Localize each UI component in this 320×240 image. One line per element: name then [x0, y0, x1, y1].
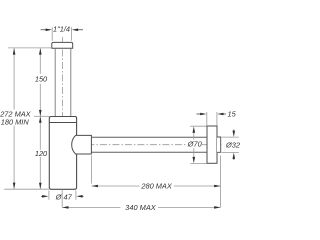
bottom extension line (body base) — [4, 188, 49, 190]
dim 1"1/4 arrows and text — [41, 29, 46, 31]
dim Ø70 line + arrows — [193, 132, 195, 159]
centerline vertical (trap axis) — [61, 37, 63, 188]
dim Ø47 extension lines — [49, 191, 76, 200]
top extension line (flange base) — [8, 47, 52, 49]
centerline horizontal (outlet axis) — [62, 144, 223, 146]
svg-text:150: 150 — [35, 75, 48, 84]
dim 15 arrows — [197, 113, 201, 115]
dim 15 extension lines — [207, 112, 217, 126]
dim 272MAX/180MIN line — [13, 48, 15, 189]
inlet flange nut — [52, 42, 73, 48]
dim Ø32 extension lines — [222, 137, 239, 152]
inlet tailpipe — [55, 48, 71, 116]
wall flange — [207, 126, 217, 163]
svg-text:Ø70: Ø70 — [187, 140, 203, 149]
svg-text:1"1/4: 1"1/4 — [53, 25, 70, 34]
svg-text:180 MIN: 180 MIN — [1, 117, 30, 126]
svg-text:47: 47 — [64, 193, 73, 202]
outlet nut — [72, 135, 92, 154]
outlet pipe — [91, 137, 207, 152]
dim Ø47 arrows — [41, 195, 43, 197]
dim 340 MAX — [62, 206, 220, 208]
svg-text:120: 120 — [35, 149, 48, 158]
svg-text:280 MAX: 280 MAX — [140, 182, 172, 191]
dim Ø70 extension lines — [190, 126, 207, 163]
dim 280 MAX — [91, 156, 93, 184]
mid extension line (body top) — [34, 115, 49, 117]
dim 150 line — [39, 48, 41, 116]
svg-text:15: 15 — [227, 109, 236, 118]
trap body cap ring line — [49, 122, 76, 124]
pipe stub through wall flange — [217, 137, 221, 152]
centerline extension below body — [61, 190, 63, 208]
dim Ø32 arrows — [233, 130, 235, 131]
dim 1"1/4 extension lines — [52, 27, 71, 41]
trap body — [49, 117, 76, 190]
dim 120 line — [39, 117, 41, 190]
svg-text:340 MAX: 340 MAX — [125, 203, 156, 212]
svg-text:Ø32: Ø32 — [225, 141, 240, 150]
